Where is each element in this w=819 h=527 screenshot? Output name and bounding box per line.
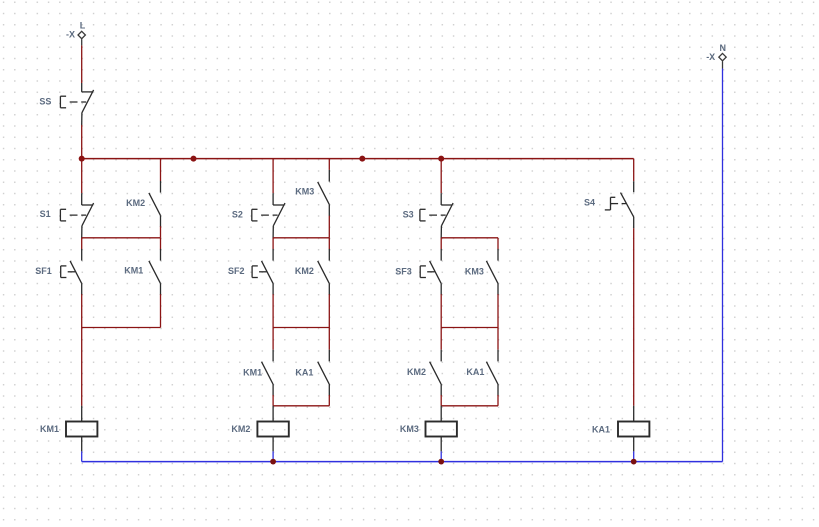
wire split S3 branch xyxy=(441,237,498,239)
svg-text:L: L xyxy=(80,20,86,30)
wire S3 to split xyxy=(440,238,442,250)
switch SS (NC pushbutton) xyxy=(39,83,93,125)
wire join2 to contact KM2 xyxy=(440,328,442,350)
junction dot at SS/S1 tee xyxy=(79,156,85,162)
wire KM1 to join2 xyxy=(160,294,162,327)
wire KM3 to join2 xyxy=(497,294,499,327)
svg-text:KM1: KM1 xyxy=(124,265,143,275)
svg-text:KM1: KM1 xyxy=(40,424,59,434)
wire bus to contact KM3 xyxy=(328,159,330,170)
wire join SF3/KM3 xyxy=(441,327,498,329)
junction dot KA1 coil on N bus xyxy=(631,459,637,465)
svg-text:KM3: KM3 xyxy=(465,266,484,276)
wire join KM2/KA1 xyxy=(441,405,498,407)
svg-text:SF3: SF3 xyxy=(395,266,412,276)
svg-text:-X: -X xyxy=(66,30,75,40)
svg-text:SF2: SF2 xyxy=(228,266,245,276)
junction dot KM2 coil on N bus xyxy=(270,459,276,465)
svg-text:KM1: KM1 xyxy=(243,368,262,378)
svg-text:KA1: KA1 xyxy=(466,367,484,377)
svg-text:KM3: KM3 xyxy=(400,424,419,434)
switch S1 (NC pushbutton) xyxy=(40,193,94,238)
wire join to contact KM1 xyxy=(160,238,162,250)
svg-text:S3: S3 xyxy=(403,210,414,220)
coil KA1 xyxy=(592,406,649,462)
wire join to contact KM2 xyxy=(328,238,330,250)
coil KM2 xyxy=(231,406,288,462)
svg-text:KM2: KM2 xyxy=(126,198,145,208)
contact KM1 (NO aux) xyxy=(124,249,160,295)
wire KM3 to join xyxy=(328,216,330,238)
wire join S2/KM3 xyxy=(273,237,329,239)
wire bus to S1 xyxy=(81,159,83,194)
svg-text:S4: S4 xyxy=(584,197,595,207)
wire KM2 to join2 xyxy=(328,294,330,327)
svg-text:KA1: KA1 xyxy=(592,425,610,435)
wire SF1 to join2 xyxy=(81,294,83,327)
wire join to SF2 xyxy=(272,238,274,250)
switch S2 (NC pushbutton) xyxy=(232,193,285,238)
svg-text:S1: S1 xyxy=(40,209,51,219)
wire join2 to contact KA1 xyxy=(328,328,330,350)
svg-text:SF1: SF1 xyxy=(35,266,52,276)
wire join2 to contact KM1 xyxy=(272,328,274,350)
contact KM2 (NO interlock) xyxy=(407,350,441,396)
wire SF3 to join2 xyxy=(440,294,442,327)
wire bottom bus N xyxy=(82,461,723,463)
junction dot at S3 branch tee xyxy=(438,156,444,162)
junction dot on bus x=193 xyxy=(191,156,197,162)
wire split to contact KM3 xyxy=(497,238,499,250)
svg-text:KM2: KM2 xyxy=(295,266,314,276)
svg-text:S2: S2 xyxy=(232,209,243,219)
wire join KM1/KA1 xyxy=(273,405,329,407)
wire KM2 to join xyxy=(160,226,162,238)
wire bus corner to S4 xyxy=(633,159,635,182)
wire join SF1/KM1 xyxy=(82,327,161,329)
svg-text:KM3: KM3 xyxy=(295,187,314,197)
junction dot KM3 coil on N bus xyxy=(438,459,444,465)
wire N line xyxy=(722,69,724,462)
svg-text:KM2: KM2 xyxy=(231,424,250,434)
button SF3 (NO pushbutton) xyxy=(395,249,441,295)
switch S3 (NC pushbutton) xyxy=(403,193,454,238)
svg-text:KM2: KM2 xyxy=(407,367,426,377)
wire bus to S2 xyxy=(272,159,274,194)
junction dot on bus x=362 xyxy=(359,156,365,162)
coil KM3 xyxy=(400,406,457,462)
wire join to SF1 xyxy=(81,238,83,250)
contact KA1 (NO) xyxy=(295,350,329,396)
terminal -X (N neutral) xyxy=(706,43,726,68)
terminal -X (L phase) xyxy=(66,20,86,45)
wire bus to contact KM2 xyxy=(160,159,162,181)
wire join S1/KM2 xyxy=(82,237,161,239)
contact KM2 (NO aux) xyxy=(295,249,329,295)
wire bus to S3 xyxy=(440,159,442,194)
wire KA1 to join3 xyxy=(497,395,499,406)
button SF2 (NO pushbutton) xyxy=(228,249,273,295)
wire S4 to coil KA1 xyxy=(633,228,635,405)
switch S4 (NO pushbutton) xyxy=(584,181,634,228)
wire KA1 to join3 xyxy=(328,395,330,406)
svg-text:SS: SS xyxy=(39,96,51,106)
button SF1 (NO pushbutton) xyxy=(35,249,81,295)
wire join2 to coil KM1 xyxy=(81,328,83,406)
wire SS to top bus xyxy=(81,125,83,159)
svg-text:-X: -X xyxy=(706,52,715,62)
wire top bus L xyxy=(82,158,634,160)
contact KM3 (NO aux) xyxy=(295,170,329,216)
contact KA1 (NO) xyxy=(466,350,498,396)
wire join SF2/KM2 xyxy=(273,327,329,329)
contact KM2 (NO aux) xyxy=(126,181,160,227)
wire SF2 to join2 xyxy=(272,294,274,327)
wire KM1 to join3 xyxy=(272,395,274,406)
wire join2 to contact KA1 xyxy=(497,328,499,350)
wire L terminal to SS xyxy=(81,45,83,83)
wire KM2 to join3 xyxy=(440,395,442,406)
svg-text:N: N xyxy=(720,43,727,53)
contact KM3 (NO aux) xyxy=(465,249,498,295)
coil KM1 xyxy=(40,406,97,462)
contact KM1 (NO interlock) xyxy=(243,350,273,396)
svg-text:KA1: KA1 xyxy=(295,368,313,378)
